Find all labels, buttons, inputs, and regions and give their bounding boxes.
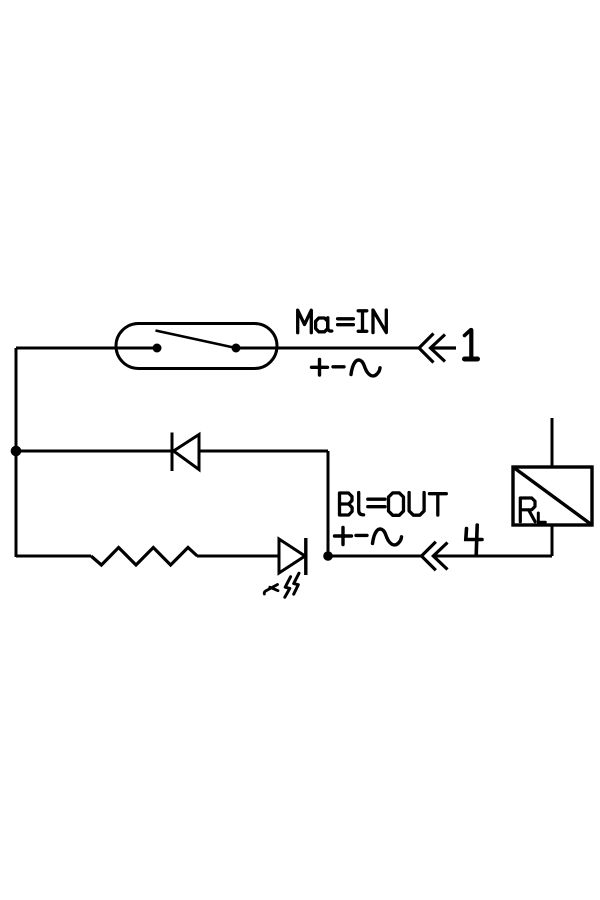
label B (340, 493, 353, 515)
label T (429, 494, 446, 515)
label N (373, 310, 386, 333)
pin label 1 (465, 330, 478, 359)
wire (551, 418, 554, 467)
label alpha (316, 318, 332, 332)
wire (16, 450, 172, 453)
label = (338, 319, 354, 325)
wire (551, 525, 554, 556)
wire (16, 347, 157, 350)
LED arrow head (264, 585, 278, 595)
pin label 4 (466, 525, 482, 555)
label L subscript (538, 513, 545, 522)
junction node (323, 551, 333, 561)
label U (409, 493, 424, 516)
LED lightning arrow 2 (294, 573, 299, 594)
label = (368, 499, 385, 507)
label l (359, 493, 364, 515)
diode D1 (172, 433, 199, 472)
wire (197, 555, 279, 558)
wire (327, 451, 330, 556)
wire (16, 555, 91, 558)
wire (328, 555, 422, 558)
wire (236, 347, 419, 350)
wire (15, 348, 18, 557)
resistor R1 (91, 548, 197, 566)
load resistor RL (513, 467, 592, 525)
wire (433, 555, 552, 558)
LED lightning arrow 1 (285, 577, 291, 598)
connector chevron 1 (419, 334, 456, 363)
label I (358, 311, 367, 332)
reed switch S1 (116, 324, 277, 369)
LED D2 (279, 538, 306, 575)
label R (520, 498, 535, 522)
polarity marks +- ~ (IN) (312, 360, 381, 376)
label M (298, 310, 312, 333)
label O (389, 493, 404, 515)
wire (199, 450, 328, 453)
junction node (11, 446, 22, 457)
connector chevron 4 (422, 542, 448, 571)
polarity marks +- ~ (OUT) (335, 528, 402, 545)
